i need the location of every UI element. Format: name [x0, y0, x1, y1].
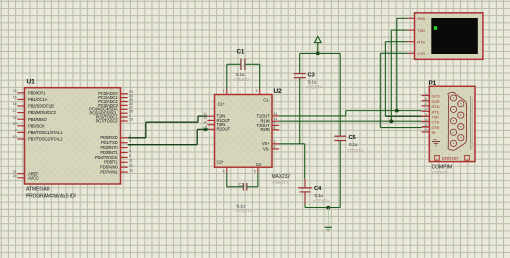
wire top rail C3 to C5 branch [300, 52, 341, 54]
U1 pin 23 PC0/ADC0 [121, 93, 128, 95]
P1 ERROR indicator right box [465, 156, 470, 161]
svg-text:8: 8 [425, 118, 427, 122]
svg-text:C4: C4 [314, 186, 322, 192]
U1 pin 10 PB7/TOSC2/XTAL2 [17, 138, 24, 140]
P1 pin 8 CTS [422, 121, 430, 123]
P1 pin 4 DTR [422, 126, 430, 128]
svg-text:6: 6 [274, 145, 276, 149]
wire U2 pin4 down to C2 [226, 173, 228, 187]
P1 DB9 hole L1 [450, 95, 456, 101]
wire terminal CTS down to P1 pin 4 [379, 53, 381, 127]
U1 pin 4 PD2/INT0 [121, 147, 128, 149]
U1 pin 24 PC1/ADC1 [121, 97, 128, 99]
svg-text:C2-: C2- [256, 162, 263, 167]
svg-text:AVCC: AVCC [28, 175, 39, 180]
svg-text:8: 8 [274, 126, 276, 130]
svg-text:0.1u: 0.1u [349, 142, 358, 147]
svg-text:C2: C2 [239, 182, 245, 188]
svg-text:<TEXT>: <TEXT> [234, 77, 251, 82]
svg-text:10: 10 [13, 135, 17, 139]
P1 pin 1 DCD [422, 95, 430, 97]
wire terminal RTS stub to vertical [385, 41, 407, 43]
P1 DB9 hole L2 [450, 106, 456, 112]
P1 DB9 shade lines [470, 96, 472, 150]
ground symbol [327, 208, 329, 227]
svg-text:5: 5 [254, 169, 256, 173]
svg-text:0.1u: 0.1u [315, 193, 324, 198]
capacitor C4 top lead [304, 179, 306, 188]
U1 pin 16 PB2/SS/OC1B [17, 105, 24, 107]
svg-text:<TEXT>: <TEXT> [313, 199, 330, 204]
svg-text:TXD: TXD [417, 28, 425, 33]
svg-text:C2+: C2+ [217, 160, 225, 165]
virtual terminal cursor [434, 26, 437, 30]
terminal pin RTS [407, 41, 414, 43]
wire W1 U1 PD0 to U2 T1IN [128, 137, 146, 139]
svg-text:1: 1 [223, 89, 225, 93]
U2 pin 7 T2OUT [272, 124, 279, 126]
virtual terminal body [415, 13, 483, 60]
svg-text:RTS: RTS [417, 39, 425, 44]
capacitor C1 left lead wire [227, 63, 241, 65]
wire C5 bottom lead to ground rail [339, 141, 341, 208]
wire terminal RXD stub to vertical [397, 17, 408, 19]
U2 pin 12 R1OUT [207, 119, 214, 121]
svg-text:T1OUT: T1OUT [257, 113, 271, 118]
svg-text:4: 4 [425, 123, 427, 127]
P1 DB9 hole R4 [458, 135, 464, 141]
svg-text:20: 20 [13, 174, 17, 178]
P1 DB9 connector graphic outline [448, 92, 467, 150]
svg-text:13: 13 [129, 169, 133, 173]
svg-text:PB1/OC1A: PB1/OC1A [28, 97, 48, 102]
U1 pin 9 PB6/TOSC1/XTAL1 [17, 131, 24, 133]
U2 pin 3 C1- stub [259, 88, 261, 94]
wire C1 left to U2 pin1 [226, 64, 228, 88]
wire terminal TXD stub to vertical [391, 29, 407, 31]
P1 DB9 hole L4 [450, 129, 456, 135]
U1 pin 2 PD0/RXD [121, 137, 128, 139]
svg-text:PB4/MISO: PB4/MISO [28, 117, 47, 122]
svg-text:12: 12 [129, 164, 133, 168]
U1 pin 11 PD5/T1 [121, 161, 128, 163]
U1 pin 19 PB5/SCK [17, 125, 24, 127]
wire W2 U1 PD2 to U2 R2OUT [128, 144, 198, 146]
svg-text:C5: C5 [349, 135, 357, 141]
U1 pin 6 PD4/T0/XCK [121, 156, 128, 158]
U1 pin 13 PD7/AIN1 [121, 171, 128, 173]
svg-text:C1-: C1- [263, 98, 270, 103]
svg-text:10: 10 [203, 121, 207, 125]
svg-text:VS-: VS- [263, 146, 270, 151]
svg-text:<TEXT>: <TEXT> [306, 85, 323, 90]
P1 pin 6 DSR [422, 100, 430, 102]
svg-text:PB6/TOSC1/XTAL1: PB6/TOSC1/XTAL1 [28, 130, 63, 135]
svg-text:R2IN: R2IN [261, 127, 270, 132]
U1 pin 28 PC5/ADC5/SCL [121, 112, 128, 114]
wire terminal CTS stub to vertical [380, 52, 407, 54]
U2 pin 13 R1IN [272, 120, 279, 122]
wire terminal RTS down to P1 pin 3 [384, 42, 386, 117]
U1 pin 27 PC4/ADC4/SDA [121, 108, 128, 110]
wire U2 VS+ to C4 [279, 143, 305, 145]
wire T1OUT row [279, 115, 346, 117]
svg-text:ATMEGA8: ATMEGA8 [26, 187, 50, 193]
junction terminal TXD tap [389, 119, 393, 123]
U1 pin 17 PB3/MOSI/OC2 [17, 112, 24, 114]
U2 pin 14 T1OUT [272, 115, 279, 117]
terminal pin CTS [407, 52, 414, 54]
svg-text:C1: C1 [237, 49, 245, 56]
junction ground rail [326, 206, 330, 210]
U2 pin 2 VS+ [272, 143, 279, 145]
U2 pin 11 T1IN [207, 115, 214, 117]
svg-text:PB7/TOSC2/XTAL2: PB7/TOSC2/XTAL2 [28, 137, 63, 142]
svg-text:C1+: C1+ [218, 102, 226, 107]
svg-text:PROGRAM=blinfa:5 IDI: PROGRAM=blinfa:5 IDI [26, 194, 76, 200]
U1 pin 5 PD3/INT1 [121, 152, 128, 154]
P1 pin 3 TXD [422, 115, 430, 117]
capacitor C2 plates [242, 183, 244, 191]
svg-text:3: 3 [256, 89, 258, 93]
svg-text:PB2/SS/OC1B: PB2/SS/OC1B [28, 104, 54, 109]
wire into P1 pin 8 [422, 121, 430, 123]
P1 ERROR indicator left box [435, 156, 440, 161]
U1 pin 12 PD6/AIN0 [121, 166, 128, 168]
U1 pin 29 PC7/TOSC2 [121, 120, 128, 122]
svg-text:C3: C3 [308, 73, 316, 79]
wire C2 to U2 pin5 [247, 186, 258, 188]
svg-text:14: 14 [13, 89, 17, 93]
svg-text:RXD: RXD [417, 16, 425, 21]
svg-text:U1: U1 [27, 79, 36, 86]
svg-text:9: 9 [15, 129, 17, 133]
power symbol (VCC arrow) [314, 36, 321, 42]
svg-text:29: 29 [129, 117, 133, 121]
U1 pin 20 AVCC [17, 177, 24, 179]
svg-text:2: 2 [425, 102, 427, 106]
svg-text:3: 3 [425, 113, 427, 117]
wire terminal RXD vertical [396, 18, 398, 110]
svg-text:CTS: CTS [417, 51, 425, 56]
svg-text:<TEXT>: <TEXT> [272, 180, 289, 185]
U1 pin 25 PC2/ADC2 [121, 101, 128, 103]
U1 pin 1 PC6/TOSC1 [121, 116, 128, 118]
svg-text:PB3/MOSI/OC2: PB3/MOSI/OC2 [28, 110, 57, 115]
svg-text:5: 5 [129, 149, 131, 153]
U1 pin 14 PB0/ICP1 [17, 92, 24, 94]
svg-text:7: 7 [425, 107, 427, 111]
P1 DB9 hole L5 [450, 140, 456, 146]
svg-text:<TEXT>: <TEXT> [236, 209, 253, 214]
P1 pin 2 RXD [422, 105, 430, 107]
U2 pin 10 T2IN [207, 124, 214, 126]
svg-text:1: 1 [425, 92, 427, 96]
svg-text:PB0/ICP1: PB0/ICP1 [28, 90, 46, 95]
capacitor C4 plates [298, 187, 312, 189]
U1 pin 15 PB1/OC1A [17, 98, 24, 100]
U2 pin 4 C2+ stub [226, 167, 228, 173]
U2 pin 9 R2OUT [207, 128, 214, 130]
wire C1 right to U2 pin3 [259, 64, 261, 88]
P1 DB9 hole R2 [458, 112, 464, 118]
P1 DB9 hole R3 [458, 124, 464, 130]
ground rail wire [305, 207, 340, 209]
U1 pin 18 PB4/MISO [17, 118, 24, 120]
svg-text:<TEXT>: <TEXT> [347, 148, 364, 153]
svg-text:15: 15 [13, 96, 17, 100]
svg-text:18: 18 [13, 115, 17, 119]
svg-text:PC7/TOSC2: PC7/TOSC2 [96, 118, 119, 123]
svg-text:U2: U2 [274, 88, 283, 95]
U2 R2OUT wire-end chevron [204, 128, 209, 132]
svg-text:11: 11 [129, 159, 133, 163]
svg-text:17: 17 [13, 109, 17, 113]
wire R1IN row [279, 120, 421, 122]
virtual terminal screen [431, 18, 478, 54]
wire into P1 pin 7 [422, 110, 430, 112]
capacitor C1 right lead wire [245, 63, 260, 65]
junction power/top rail [316, 52, 320, 56]
U1 pin 21 AREF [17, 173, 24, 175]
svg-text:4: 4 [223, 169, 225, 173]
U1 pin 3 PD1/TXD [121, 142, 128, 144]
U2 pin 6 VS- [272, 148, 279, 150]
wire C3 top lead [299, 53, 301, 73]
MAX232 U2 body [215, 95, 273, 168]
P1 pin 9 RI [422, 131, 430, 133]
P1 pin 7 RTS [422, 110, 430, 112]
svg-text:<TEXT>: <TEXT> [432, 170, 449, 175]
capacitor C1 plates [240, 59, 242, 70]
capacitor C3 plates [294, 73, 306, 75]
terminal pin RXD [407, 17, 414, 19]
connector P1 body [429, 86, 475, 161]
wire terminal TXD vertical [390, 30, 392, 121]
svg-text:7: 7 [274, 121, 276, 125]
svg-text:19: 19 [13, 122, 17, 126]
svg-text:PB5/SCK: PB5/SCK [28, 123, 45, 128]
terminal pin TXD [407, 29, 414, 31]
svg-text:R2OUT: R2OUT [217, 127, 231, 132]
P1 internal ground symbol [433, 139, 437, 141]
U2 pin 8 R2IN [272, 129, 279, 131]
svg-text:3: 3 [129, 139, 131, 143]
svg-text:9: 9 [425, 128, 427, 132]
svg-text:16: 16 [13, 102, 17, 106]
svg-text:RI: RI [432, 130, 436, 135]
svg-text:6: 6 [129, 154, 131, 158]
U2 pin 5 C2- stub [257, 167, 259, 173]
U1 pin 26 PC3/ADC3 [121, 104, 128, 106]
svg-text:2: 2 [274, 140, 276, 144]
svg-text:6: 6 [425, 97, 427, 101]
P1 DB9 hole R1 [458, 101, 464, 107]
wire power symbol down [317, 43, 319, 54]
wire C3 bottom lead down to VS+ wire [299, 78, 301, 144]
wire C5 top lead from top rail [339, 53, 341, 136]
capacitor C4 bottom lead [304, 192, 306, 204]
junction terminal RXD tap [395, 109, 399, 113]
capacitor C5 plates [334, 135, 346, 137]
microcontroller U1 body [25, 88, 121, 184]
U2 pin 1 C1+ stub [226, 88, 228, 94]
P1 DB9 hole L3 [450, 118, 456, 124]
svg-text:PD7/AIN1: PD7/AIN1 [100, 170, 118, 175]
svg-text:ERROR: ERROR [442, 156, 458, 161]
svg-text:14: 14 [274, 112, 278, 116]
